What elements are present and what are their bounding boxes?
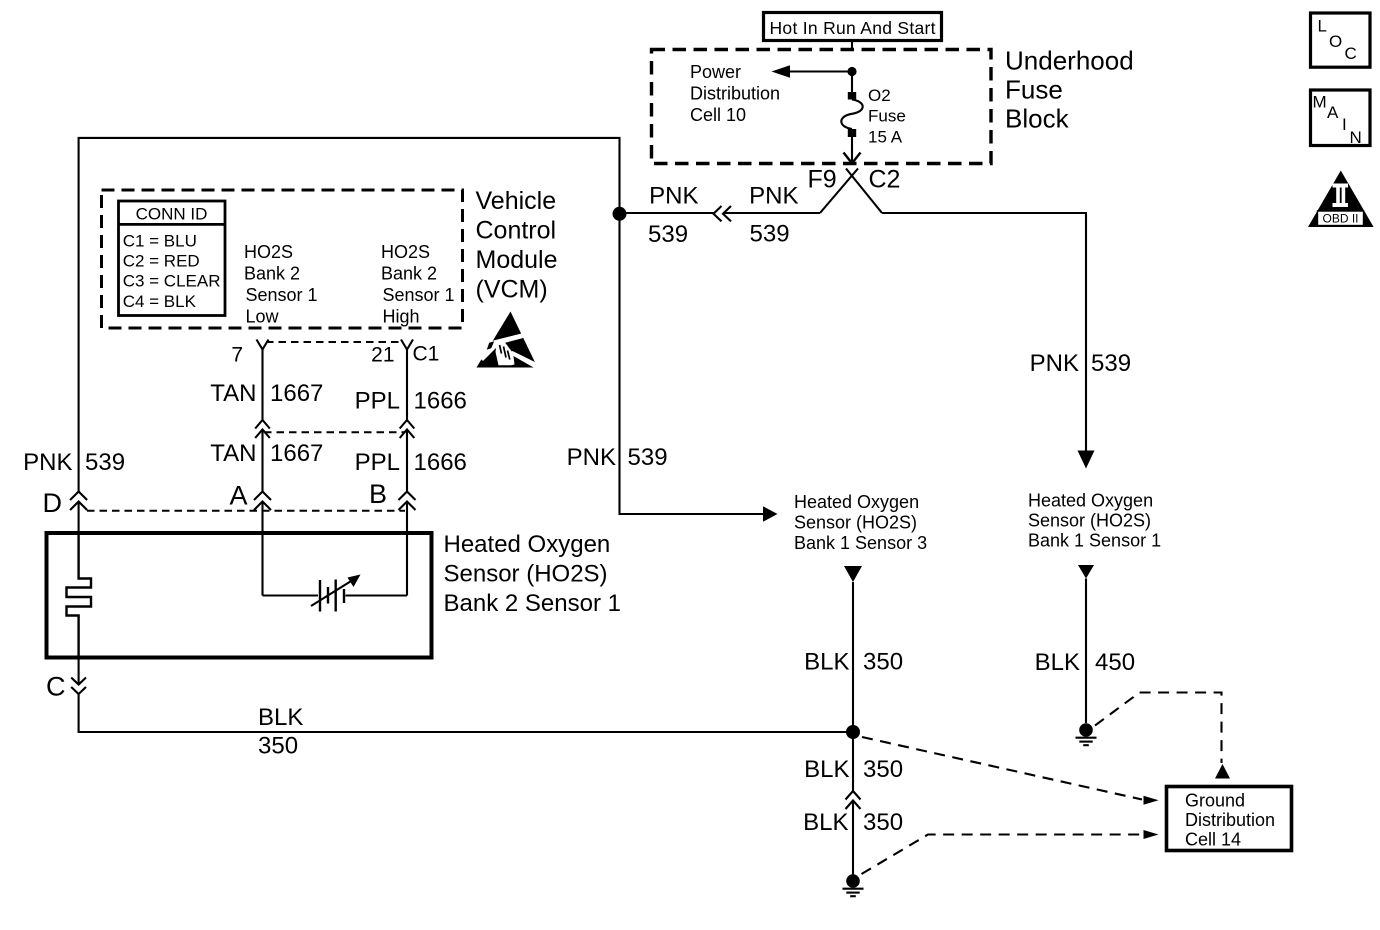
label Power Distribution Cell 10 [690,62,780,125]
svg-text:Control: Control [476,217,557,245]
svg-text:539: 539 [750,221,790,248]
svg-text:Distribution: Distribution [690,84,780,104]
svg-text:539: 539 [85,449,125,476]
inline connector dashed line (mid) [264,431,405,433]
svg-text:L: L [1318,17,1327,36]
label HO2S Bank 2 Sensor 1 High [381,242,455,327]
svg-text:TAN: TAN [210,380,256,407]
svg-text:OBD II: OBD II [1322,212,1358,226]
svg-text:C3 = CLEAR: C3 = CLEAR [123,272,221,291]
svg-text:I: I [1342,115,1347,134]
svg-text:Vehicle: Vehicle [476,187,557,215]
dashed link junction to ground distribution [862,737,1159,805]
VCM dashed box [102,190,463,328]
svg-text:539: 539 [1091,350,1131,377]
svg-text:Cell 10: Cell 10 [690,105,746,125]
label Vehicle Control Module (VCM) [476,187,558,304]
svg-text:A: A [1327,103,1339,122]
svg-text:Sensor 1: Sensor 1 [383,285,455,305]
svg-text:Low: Low [246,307,280,327]
label PNK 539 mid [567,444,668,471]
label PPL 1666 (upper) [355,388,467,415]
ground G107 [1076,723,1097,745]
svg-text:D: D [43,488,63,518]
heater element [67,533,92,658]
label PNK 539 (left of connector) [648,183,699,249]
svg-text:PPL: PPL [355,449,400,476]
svg-text:O2: O2 [868,86,891,105]
junction dot BLK 350 [846,725,860,739]
svg-text:450: 450 [1095,649,1135,676]
svg-text:TAN: TAN [210,440,256,467]
svg-text:BLK: BLK [1035,649,1080,676]
OBD II symbol [1308,171,1374,228]
svg-text:1667: 1667 [270,440,323,467]
wire C to ground run [71,658,853,733]
dashed link BLK450 ground to ground distribution [1095,693,1230,779]
label TAN 1667 (lower) [210,440,323,467]
svg-text:PPL: PPL [355,388,400,415]
svg-text:C2 = RED: C2 = RED [123,252,200,271]
svg-text:539: 539 [628,444,668,471]
wire PNK 539 left with D connector [70,492,87,534]
svg-text:Heated Oxygen: Heated Oxygen [794,492,919,512]
sensor element (variable cell with arrow) [263,533,408,612]
svg-text:Bank 2: Bank 2 [244,264,300,284]
wire hot box to fuse block [851,41,853,52]
label Heated Oxygen Sensor (HO2S) Bank 2 Sensor 1 [444,531,621,617]
svg-text:BLK: BLK [803,809,848,836]
svg-text:350: 350 [863,809,903,836]
svg-text:C: C [46,672,66,702]
Ground Distribution Cell 14 box [1167,787,1292,851]
svg-text:(VCM): (VCM) [476,276,548,304]
fuse O2 15A [841,86,905,147]
svg-text:PNK: PNK [1030,350,1079,377]
svg-text:350: 350 [863,649,903,676]
CONN ID table [119,201,226,316]
svg-text:C4 = BLK: C4 = BLK [123,292,197,311]
label BLK 350 (lowest) [803,809,903,836]
wire dot to fuse [851,72,853,93]
svg-text:Ground: Ground [1185,791,1245,811]
ground G108 [843,874,864,896]
svg-text:O: O [1329,32,1342,51]
svg-text:Heated Oxygen: Heated Oxygen [1028,491,1153,511]
svg-text:PNK: PNK [749,183,798,210]
svg-text:C: C [1345,44,1357,63]
junction dot on VCM right edge [613,207,627,221]
svg-text:539: 539 [648,221,688,248]
pin 21 fork [401,340,413,350]
svg-text:M: M [1313,93,1327,112]
svg-text:350: 350 [863,756,903,783]
label TAN 1667 (upper) [210,380,323,407]
svg-text:Sensor (HO2S): Sensor (HO2S) [794,513,917,533]
svg-text:7: 7 [231,344,243,367]
svg-text:C1: C1 [413,343,440,366]
svg-text:Module: Module [476,246,558,274]
svg-text:High: High [383,307,420,327]
label HO2S Bank 2 Sensor 1 Low [244,242,318,327]
label PNK 539 (right of chevron) [749,183,798,248]
svg-text:PNK: PNK [567,444,616,471]
wire BLK 350 from HO2S B1S3 [844,566,862,732]
svg-text:HO2S: HO2S [244,242,293,262]
svg-text:1666: 1666 [414,449,467,476]
wire BLK 450 from HO2S B1S1 [1078,565,1094,723]
svg-text:Sensor (HO2S): Sensor (HO2S) [444,561,608,588]
svg-text:BLK: BLK [804,756,849,783]
wire PNK 539 right run to HO2S B1S1 with arrow [882,213,1095,469]
svg-text:Power: Power [690,62,741,82]
label BLK 450 [1035,649,1135,676]
svg-text:B: B [369,479,387,509]
Hot In Run And Start box [764,13,942,41]
svg-text:Hot In Run And Start: Hot In Run And Start [770,18,936,38]
svg-text:Underhood: Underhood [1005,46,1134,76]
svg-text:Bank 1 Sensor 3: Bank 1 Sensor 3 [794,533,927,553]
wire BLK 350 to ground with inline connector [846,732,861,875]
HO2S Bank 2 Sensor 1 box [47,533,432,658]
svg-text:Bank 1 Sensor 1: Bank 1 Sensor 1 [1028,531,1161,551]
svg-text:PNK: PNK [649,183,698,210]
label BLK 350 horizontal [258,704,303,760]
svg-text:N: N [1350,128,1362,147]
svg-text:Fuse: Fuse [868,107,906,126]
connector dashed line A B D [87,510,405,512]
label BLK 350 (below junction) [804,756,903,783]
svg-text:Cell 14: Cell 14 [1185,830,1241,850]
legend MAIN box [1311,90,1371,147]
wire PNK 539 left run to VCM [620,212,821,214]
label PNK 539 far left [23,449,125,476]
wire arrow to power distribution [772,65,853,78]
wire TAN 1667 [254,350,271,534]
wire fuse to connector with open arrow [844,137,861,163]
wire PNK 539 VCM feed path (left edge, top edge, right edge) [79,138,764,514]
svg-text:F9: F9 [808,166,837,194]
wire PPL 1666 [399,350,416,534]
ESD sensitive symbol [477,312,541,368]
connector C1 dashed line [266,341,403,343]
svg-text:C2: C2 [869,166,901,194]
inline connector chevrons on PNK wire [714,206,732,221]
svg-text:Distribution: Distribution [1185,810,1275,830]
svg-text:15 A: 15 A [868,128,903,147]
label Heated Oxygen Sensor (HO2S) Bank 1 Sensor 1 [1028,491,1161,551]
svg-text:Sensor (HO2S): Sensor (HO2S) [1028,511,1151,531]
svg-text:HO2S: HO2S [381,242,430,262]
arrowhead to HO2S B1S3 [763,506,778,521]
svg-text:C1 = BLU: C1 = BLU [123,232,197,251]
svg-text:BLK: BLK [258,704,303,731]
svg-text:21: 21 [371,344,394,367]
legend LOC box [1311,13,1371,67]
svg-text:350: 350 [258,733,298,760]
svg-text:Bank 2: Bank 2 [381,264,437,284]
label Underhood Fuse Block [1005,46,1134,134]
svg-text:CONN ID: CONN ID [136,205,208,224]
svg-text:BLK: BLK [804,649,849,676]
label PNK 539 right [1030,350,1131,377]
svg-text:Heated Oxygen: Heated Oxygen [444,531,611,558]
svg-text:1667: 1667 [270,380,323,407]
label Heated Oxygen Sensor (HO2S) Bank 1 Sensor 3 [794,492,927,553]
dashed link lower ground to ground distribution [862,830,1159,874]
underhood fuse block dashed box [652,50,992,164]
svg-text:Block: Block [1005,104,1070,134]
svg-text:Sensor 1: Sensor 1 [246,285,318,305]
svg-text:1666: 1666 [414,388,467,415]
svg-text:A: A [229,481,247,511]
svg-text:PNK: PNK [23,449,72,476]
junction dot fuse feed [847,67,856,76]
label BLK 350 (above junction) [804,649,903,676]
svg-text:Fuse: Fuse [1005,75,1063,105]
label PPL 1666 (lower) [355,449,467,476]
connector X F9 C2 [808,166,901,214]
svg-text:Bank 2 Sensor 1: Bank 2 Sensor 1 [444,590,621,617]
pin 7 fork [257,340,269,350]
